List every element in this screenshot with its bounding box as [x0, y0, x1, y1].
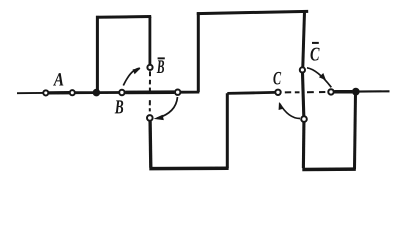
- contact C blade: [334, 90, 352, 94]
- label B-bar: [157, 57, 165, 73]
- label C: [273, 72, 281, 85]
- contact B left terminal: [119, 90, 124, 95]
- wire: upper-left branch top rail: [96, 15, 151, 19]
- contact B blade: [125, 90, 174, 94]
- label B: [115, 100, 124, 113]
- mechanical link B (dashed): [149, 71, 151, 111]
- wire: bottom-right riser: [355, 92, 356, 169]
- contact B-bar terminal: [147, 65, 152, 70]
- wire: A to node 1: [75, 91, 95, 94]
- wire: left lead-in: [17, 92, 43, 94]
- wire: top-rect right drop: [303, 11, 305, 67]
- wire: node 1 to contact B: [96, 91, 119, 94]
- wire: right lead-out: [356, 90, 390, 92]
- wire: bottom-left riser: [226, 93, 229, 168]
- mechanical link C (dashed): [285, 91, 326, 93]
- contact C-bar vertical blade: [303, 73, 304, 116]
- contact C-bar upper terminal: [300, 67, 305, 72]
- arrow to lower B contact: [154, 97, 178, 120]
- node 2 junction dot: [352, 88, 360, 96]
- label C-bar: [311, 42, 320, 61]
- contact C-bar lower terminal: [301, 116, 307, 122]
- wire: lower B drop: [148, 121, 152, 167]
- wire: contact B to top-rect riser: [181, 91, 200, 94]
- label A: [53, 73, 63, 85]
- contact A right terminal: [70, 90, 75, 95]
- wire: drop to B-bar contact: [148, 17, 151, 65]
- arrow to C contact (from lower terminal): [279, 102, 300, 119]
- arrow to C right contact (from C-bar): [307, 68, 331, 88]
- wire: top rail: [197, 11, 308, 13]
- contact C terminal: [275, 90, 280, 95]
- wire: bottom-right rail: [302, 167, 356, 171]
- wire: riser from node 1: [96, 16, 99, 93]
- contact B lower terminal: [147, 115, 153, 121]
- contact B right terminal: [175, 90, 180, 95]
- wire: C branch horizontal: [227, 92, 275, 93]
- arrow to B-bar contact: [123, 68, 140, 85]
- wire: top-rect left riser: [197, 12, 200, 92]
- contact A blade: [49, 91, 70, 95]
- contact A left terminal: [43, 90, 48, 95]
- contact C right terminal: [328, 89, 333, 94]
- node 1 junction dot: [93, 89, 101, 97]
- wire: bottom-left rail: [149, 166, 228, 170]
- wire: lower C drop: [302, 122, 306, 168]
